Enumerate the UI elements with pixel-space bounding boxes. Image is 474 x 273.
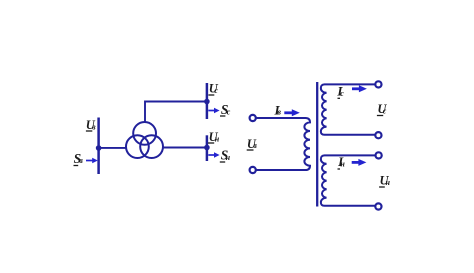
label Sс (MV power) <box>220 102 231 117</box>
terminal LV top <box>376 152 382 158</box>
label Sн (LV power) <box>220 148 231 163</box>
svg-text:в: в <box>253 141 257 150</box>
busbar MV (top right) <box>206 83 209 119</box>
terminal MV bottom <box>375 132 381 138</box>
arrow Sн out of LV busbar <box>208 152 219 157</box>
wire transformer to MV busbar <box>145 102 207 123</box>
terminal HV bottom <box>250 167 256 173</box>
junction on LV busbar <box>204 145 210 151</box>
svg-text:н: н <box>226 153 231 162</box>
arrow Sв into HV busbar <box>86 158 98 163</box>
terminal LV bottom <box>375 203 381 209</box>
label Uн (LV bus voltage) <box>208 130 220 144</box>
svg-text:н: н <box>386 178 391 187</box>
busbar LV (mid right) <box>206 135 209 161</box>
svg-text:в: в <box>92 123 96 132</box>
busbar HV (left) <box>97 118 100 175</box>
wire HV busbar to transformer <box>99 147 127 149</box>
svg-text:в: в <box>277 108 281 117</box>
winding W2 secondary (MV) <box>321 84 375 134</box>
junction on MV busbar <box>204 99 210 105</box>
arrow Iв <box>284 109 300 116</box>
three-winding transformer T1 (three circles) <box>126 122 163 158</box>
winding W1 primary (HV) <box>256 118 310 170</box>
svg-text:н: н <box>215 134 220 143</box>
arrow Iн <box>352 159 367 166</box>
wire transformer to LV busbar <box>163 147 207 149</box>
label Uв (primary voltage) <box>247 137 258 151</box>
svg-text:н: н <box>340 159 345 168</box>
label Uн (LV voltage) <box>379 174 390 188</box>
junction on HV busbar <box>96 145 102 151</box>
svg-text:с: с <box>214 86 218 95</box>
label Uс (MV voltage) <box>377 102 388 116</box>
terminal HV top <box>250 115 256 121</box>
label Sв (HV power) <box>74 151 84 166</box>
transformer core <box>316 82 318 207</box>
label Iв (primary current) <box>274 102 282 117</box>
label Uс (MV bus voltage) <box>208 82 218 96</box>
svg-text:с: с <box>383 107 387 116</box>
winding W3 secondary (LV) <box>321 155 376 205</box>
label Iс (MV current) <box>336 84 344 99</box>
label Iн (LV current) <box>337 154 345 169</box>
svg-text:в: в <box>79 156 83 165</box>
svg-text:с: с <box>340 89 344 98</box>
svg-text:с: с <box>227 107 231 116</box>
arrow Sс out of MV busbar <box>208 108 219 113</box>
arrow Iс <box>352 85 367 92</box>
terminal MV top <box>375 81 381 87</box>
label Uв (HV bus voltage) <box>86 118 96 132</box>
